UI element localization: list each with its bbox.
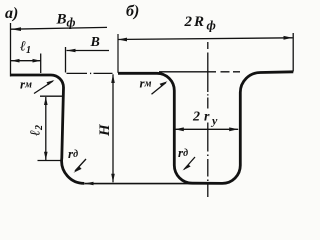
svg-text:2Rф: 2Rф [184, 14, 216, 33]
svg-text:а): а) [5, 5, 18, 22]
svg-text:rд: rд [68, 146, 78, 161]
svg-text:2rу: 2rу [192, 110, 218, 128]
svg-text:rм: rм [140, 76, 152, 91]
svg-text:Вф: Вф [56, 12, 76, 30]
svg-text:ℓ2: ℓ2 [29, 125, 46, 136]
svg-text:ℓ1: ℓ1 [20, 40, 31, 57]
svg-text:Н: Н [97, 123, 113, 137]
svg-text:rд: rд [178, 145, 188, 160]
svg-text:б): б) [126, 3, 139, 20]
svg-text:rм: rм [20, 77, 32, 92]
svg-text:В: В [90, 35, 100, 50]
